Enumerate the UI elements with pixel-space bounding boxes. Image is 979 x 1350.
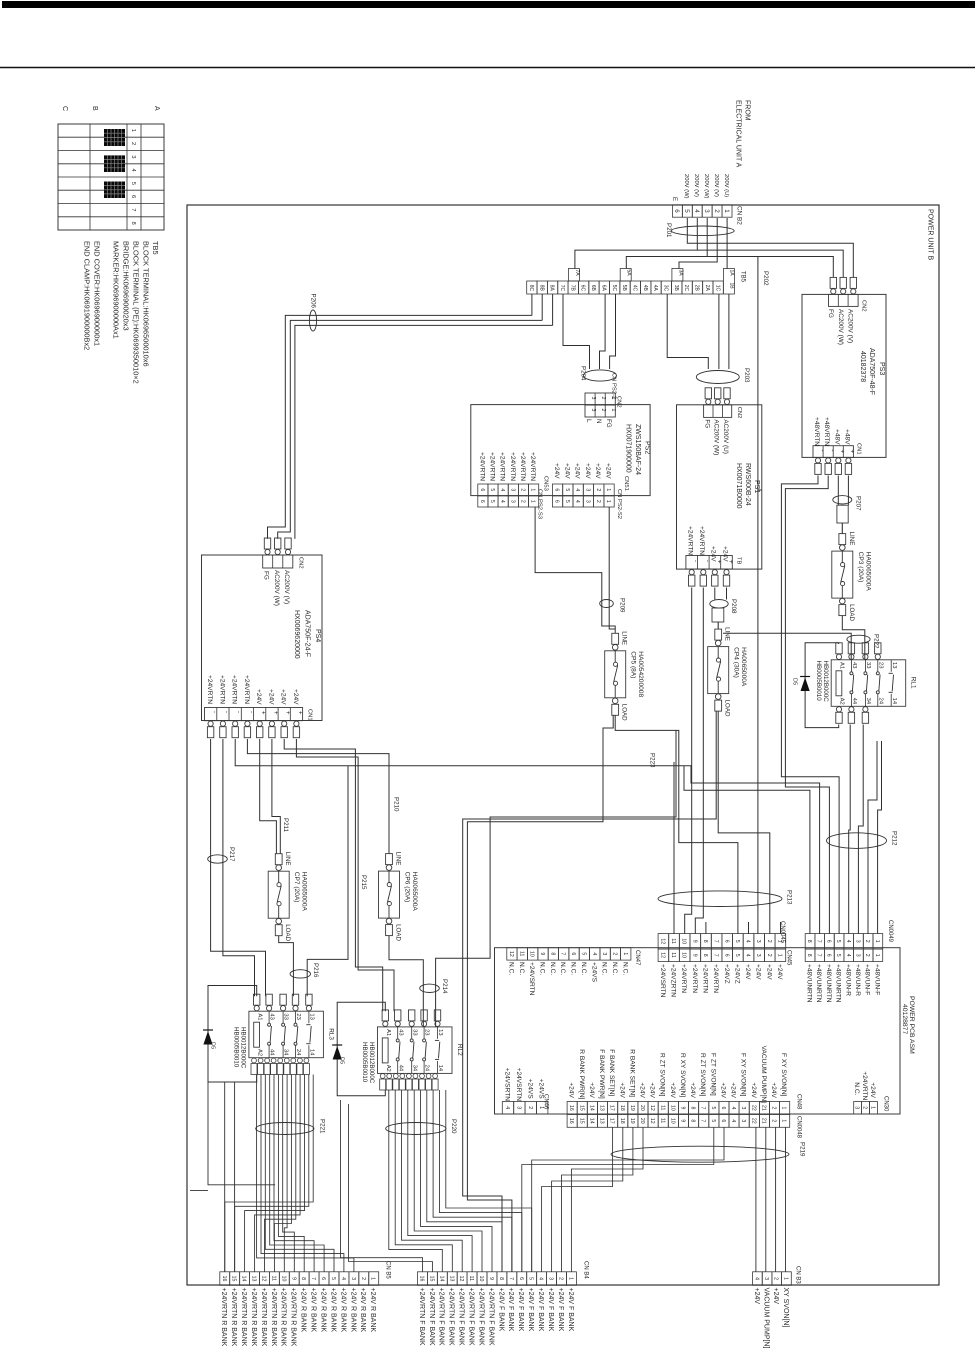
TB5 strip cell 1A 1B	[723, 269, 734, 295]
svg-text:P222: P222	[873, 634, 880, 649]
svg-text:CN0048: CN0048	[796, 1116, 802, 1139]
svg-text:16: 16	[568, 1105, 574, 1111]
cable marker P221	[256, 1123, 314, 1135]
svg-text:6: 6	[825, 940, 831, 943]
svg-text:POWER UNIT B: POWER UNIT B	[927, 209, 934, 261]
relay RL1 contacts	[850, 672, 853, 675]
svg-text:1: 1	[370, 1277, 376, 1280]
svg-text:6A: 6A	[600, 285, 606, 292]
svg-text:14: 14	[309, 1049, 315, 1056]
svg-text:+48VUNRTN: +48VUNRTN	[835, 964, 842, 1003]
svg-text:4B: 4B	[642, 285, 648, 292]
relay RL3 contacts	[268, 1023, 271, 1026]
svg-text:LINE: LINE	[621, 631, 628, 645]
wire 6A to PS2 N	[600, 294, 606, 369]
svg-text:P201: P201	[665, 223, 672, 238]
svg-text:3: 3	[548, 1277, 554, 1280]
svg-text:+24VRTN: +24VRTN	[702, 964, 709, 993]
svg-text:15: 15	[578, 1118, 584, 1124]
svg-text:7: 7	[700, 1107, 706, 1110]
PS1 connector CN2	[704, 405, 732, 418]
svg-text:+24V: +24V	[584, 463, 591, 479]
svg-text:+24VRTN: +24VRTN	[680, 964, 687, 993]
diode D5 (RL2)	[333, 1046, 342, 1060]
svg-text:CN1: CN1	[856, 443, 862, 455]
svg-text:P211: P211	[282, 818, 289, 833]
svg-text:HA0065000A: HA0065000A	[411, 872, 418, 912]
svg-text:200V (V): 200V (V)	[713, 174, 719, 197]
svg-text:CN48: CN48	[796, 1094, 802, 1110]
svg-text:19: 19	[629, 1118, 635, 1124]
svg-text:5A: 5A	[626, 270, 632, 277]
svg-text:23: 23	[295, 1013, 301, 1019]
svg-text:CP5 (8A): CP5 (8A)	[630, 651, 637, 678]
svg-text:RL1: RL1	[910, 677, 917, 689]
svg-text:+: +	[849, 450, 855, 454]
svg-text:-: -	[692, 560, 698, 562]
svg-text:3: 3	[509, 488, 515, 491]
svg-text:+24VRTN R BANK: +24VRTN R BANK	[280, 1288, 287, 1347]
svg-text:24: 24	[877, 698, 883, 705]
svg-text:33: 33	[865, 662, 871, 668]
svg-text:L: L	[585, 419, 592, 423]
svg-text:+24V: +24V	[574, 463, 581, 479]
svg-text:6: 6	[723, 940, 729, 943]
svg-text:CN45: CN45	[786, 950, 792, 966]
svg-text:+24V R BANK: +24V R BANK	[310, 1288, 317, 1333]
svg-text:LINE: LINE	[848, 532, 855, 546]
svg-text:+24VRTN: +24VRTN	[206, 675, 213, 704]
svg-text:5: 5	[130, 182, 136, 185]
svg-text:12: 12	[649, 1118, 655, 1124]
svg-text:4: 4	[538, 1277, 544, 1280]
page header black bar	[2, 1, 975, 8]
svg-text:4: 4	[591, 952, 597, 955]
svg-text:3C: 3C	[663, 285, 669, 292]
circuit protector CP4 LOAD terminal	[715, 694, 721, 700]
svg-text:P213: P213	[786, 890, 793, 905]
wire to CN0049-2	[868, 741, 877, 934]
PS1 CN2 terminals	[705, 388, 711, 399]
power supply PS2 body	[471, 405, 650, 496]
svg-text:BRIDGE:HK0696900020x3: BRIDGE:HK0696900020x3	[122, 241, 131, 331]
svg-text:+24V R BANK: +24V R BANK	[369, 1288, 376, 1333]
wire 1B to PS1	[728, 294, 730, 369]
svg-text:+48VUN-R: +48VUN-R	[854, 964, 861, 996]
svg-text:+24V: +24V	[588, 1082, 595, 1098]
svg-text:+24V: +24V	[553, 463, 560, 479]
svg-text:TB: TB	[736, 557, 742, 565]
svg-text:16: 16	[568, 1118, 574, 1124]
svg-text:LOAD: LOAD	[621, 704, 628, 721]
svg-text:R ZT SVON[N]: R ZT SVON[N]	[699, 1053, 706, 1097]
RL1 coil loop with diode D5	[805, 643, 839, 728]
svg-text:FG: FG	[605, 419, 612, 428]
wire PS3 -48VRTN to CN0049-5	[781, 476, 839, 934]
svg-text:40182378: 40182378	[859, 351, 866, 382]
wire CP5 LOAD left branch down to CN B4	[467, 715, 613, 1272]
svg-text:POWER PCB ASM: POWER PCB ASM	[908, 996, 915, 1054]
connector CN B4	[418, 1272, 428, 1286]
svg-text:1: 1	[530, 488, 536, 491]
svg-text:2C: 2C	[683, 285, 689, 292]
connector CN45 with mating CN0045	[658, 934, 669, 949]
svg-text:+24V: +24V	[721, 546, 728, 562]
svg-text:PS1: PS1	[753, 480, 760, 493]
svg-text:ADA750F-48-F: ADA750F-48-F	[868, 348, 875, 395]
svg-text:3: 3	[755, 954, 761, 957]
svg-text:AC200V (W): AC200V (W)	[837, 309, 844, 345]
svg-text:6: 6	[554, 488, 560, 491]
svg-text:F BANK PWR[N]: F BANK PWR[N]	[598, 1049, 605, 1099]
svg-text:+24VRTN: +24VRTN	[489, 452, 496, 481]
circuit protector CP5 LOAD terminal	[612, 698, 618, 704]
svg-text:3: 3	[130, 155, 136, 158]
wire RL3 loop to CN B5 cell 16	[224, 1082, 226, 1272]
svg-text:3: 3	[585, 500, 591, 503]
svg-text:17: 17	[609, 1105, 615, 1111]
svg-text:+48VUN-R: +48VUN-R	[844, 964, 851, 996]
cable marker P217	[208, 855, 228, 863]
wire CP7 LOAD to RL3-23 via P216	[279, 936, 294, 997]
svg-text:2B: 2B	[694, 285, 700, 292]
PS3 CN2 terminals	[830, 277, 836, 288]
svg-text:22: 22	[750, 1118, 756, 1124]
svg-text:1: 1	[782, 1277, 788, 1280]
svg-text:7: 7	[310, 1277, 316, 1280]
svg-text:14: 14	[241, 1276, 247, 1282]
svg-text:5: 5	[489, 488, 495, 491]
svg-text:+24V R BANK: +24V R BANK	[349, 1288, 356, 1333]
svg-text:10: 10	[280, 1276, 286, 1282]
svg-text:13: 13	[251, 1276, 257, 1282]
svg-text:LINE: LINE	[395, 852, 402, 866]
svg-text:11: 11	[659, 1105, 665, 1110]
wire PS4-4 to CP6 via P210	[247, 739, 389, 854]
svg-text:+48VUN-F: +48VUN-F	[873, 964, 880, 995]
svg-text:6C: 6C	[580, 285, 586, 292]
svg-text:3: 3	[855, 954, 861, 957]
wire RL3 loop to CN B5 cell 15	[234, 1082, 236, 1272]
svg-text:6: 6	[673, 209, 680, 213]
svg-text:23: 23	[877, 662, 883, 668]
svg-text:+24VRTN: +24VRTN	[231, 675, 238, 704]
svg-text:3: 3	[601, 952, 607, 955]
svg-text:4: 4	[499, 500, 505, 503]
svg-text:-: -	[247, 711, 253, 713]
svg-text:44: 44	[269, 1049, 275, 1056]
cable marker P216	[290, 970, 310, 978]
svg-text:P216: P216	[312, 963, 319, 978]
svg-text:5: 5	[835, 940, 841, 943]
svg-text:+24VRTN R BANK: +24VRTN R BANK	[230, 1288, 237, 1347]
svg-text:1: 1	[777, 954, 783, 957]
svg-text:6: 6	[518, 1277, 524, 1280]
svg-text:+24VS: +24VS	[538, 1079, 545, 1100]
svg-text:+48VUNRTN: +48VUNRTN	[825, 964, 832, 1003]
wire 8A to P206 bus	[552, 294, 554, 325]
RL2 top terminals	[382, 1010, 388, 1021]
svg-text:2: 2	[520, 488, 526, 491]
page header rule	[0, 67, 975, 69]
svg-text:2: 2	[600, 397, 606, 400]
svg-text:3B: 3B	[673, 285, 679, 292]
svg-text:AC200V (U): AC200V (U)	[722, 419, 729, 453]
wire stub CN0049-1	[878, 741, 882, 934]
svg-text:3: 3	[854, 1106, 860, 1109]
svg-text:BLOCK TERMINAL (PE):HK06993500: BLOCK TERMINAL (PE):HK0699350010×2	[132, 241, 141, 384]
svg-text:5: 5	[683, 209, 690, 213]
svg-text:4C: 4C	[632, 285, 638, 292]
svg-text:7: 7	[816, 940, 822, 943]
svg-text:MARKER:HK0696900000Ax1: MARKER:HK0696900000Ax1	[112, 241, 121, 339]
svg-text:+48VUNRTN: +48VUNRTN	[815, 964, 822, 1003]
svg-text:P206: P206	[310, 294, 317, 309]
svg-text:+24V R BANK: +24V R BANK	[300, 1288, 307, 1333]
svg-text:+24V: +24V	[869, 1082, 876, 1098]
svg-text:+24VRTN R BANK: +24VRTN R BANK	[250, 1288, 257, 1347]
svg-text:1: 1	[605, 488, 611, 491]
svg-text:+24V R BANK: +24V R BANK	[320, 1288, 327, 1333]
svg-text:21: 21	[761, 1105, 767, 1111]
svg-text:+24VRTN F BANK: +24VRTN F BANK	[428, 1288, 435, 1346]
cable marker P204	[584, 370, 617, 381]
wire PS4-1 to RL3-43 via P217	[211, 739, 266, 996]
svg-text:8: 8	[549, 952, 555, 955]
svg-text:-: -	[235, 711, 241, 713]
circuit protector CP6 body	[379, 871, 400, 918]
svg-text:14: 14	[438, 1276, 444, 1282]
wire RL1-34 to CN0049-3	[858, 725, 863, 934]
svg-text:6: 6	[554, 500, 560, 503]
svg-text:5: 5	[564, 488, 570, 491]
TB5 terminal block table	[58, 124, 164, 230]
wire CN B2-2 to TB5 3A	[679, 218, 717, 269]
svg-text:6: 6	[720, 1107, 726, 1110]
svg-text:+24VRTN: +24VRTN	[218, 675, 225, 704]
wire branch to CN0049-8	[684, 766, 810, 934]
RL2 output bundle fan to CN B4	[446, 1090, 532, 1272]
svg-text:D5: D5	[210, 1042, 216, 1049]
connector CN B3	[753, 1272, 763, 1286]
svg-text:2: 2	[595, 488, 601, 491]
PS2 output connector CN53	[478, 484, 488, 496]
svg-text:7A: 7A	[574, 270, 580, 277]
svg-text:3: 3	[755, 940, 761, 943]
svg-text:+24VSRTN: +24VSRTN	[515, 1068, 522, 1102]
svg-text:10: 10	[529, 951, 535, 957]
svg-text:8: 8	[702, 954, 708, 957]
svg-text:END COVER:HK0696900000x1: END COVER:HK0696900000x1	[93, 241, 102, 346]
svg-text:5: 5	[564, 500, 570, 503]
wire CN B2-1 to TB5 1A	[726, 218, 728, 269]
svg-text:+24VRTN: +24VRTN	[478, 452, 485, 481]
svg-text:40128877: 40128877	[901, 1004, 908, 1034]
svg-text:2: 2	[130, 142, 136, 145]
svg-text:LOAD: LOAD	[395, 924, 402, 941]
svg-text:A1: A1	[839, 662, 845, 669]
svg-text:1: 1	[622, 952, 628, 955]
svg-text:7: 7	[816, 954, 822, 957]
svg-text:+48V: +48V	[844, 429, 851, 445]
wire 1C to PS1	[718, 294, 720, 369]
svg-text:+24VRTN F BANK: +24VRTN F BANK	[458, 1288, 465, 1346]
svg-text:-: -	[223, 711, 229, 713]
TB5 strip top cells 7A 5A 3A	[568, 269, 579, 282]
POWER PCB ASM body	[495, 948, 901, 1114]
svg-text:9: 9	[539, 952, 545, 955]
svg-text:8: 8	[690, 1107, 696, 1110]
svg-text:3: 3	[515, 1106, 521, 1109]
svg-text:14: 14	[891, 698, 897, 705]
circuit protector CP4 body	[708, 647, 729, 694]
wire CN51 pin1 down to P209	[609, 507, 615, 629]
svg-text:43: 43	[397, 1029, 403, 1035]
svg-text:D5: D5	[792, 678, 798, 685]
power supply PS1 body	[677, 405, 762, 569]
svg-text:43: 43	[851, 662, 857, 668]
svg-text:200V (V): 200V (V)	[693, 174, 699, 197]
svg-text:5: 5	[528, 1277, 534, 1280]
svg-text:+24V: +24V	[755, 964, 762, 980]
svg-text:TB5: TB5	[740, 271, 746, 283]
svg-text:LOAD: LOAD	[284, 924, 291, 941]
svg-text:HA0065000A: HA0065000A	[864, 552, 871, 592]
svg-text:A: A	[153, 106, 160, 111]
svg-text:P207: P207	[855, 496, 862, 511]
svg-text:15: 15	[578, 1105, 584, 1111]
svg-text:AC200V (V): AC200V (V)	[283, 570, 290, 604]
svg-text:8: 8	[806, 940, 812, 943]
svg-text:P202: P202	[762, 271, 769, 286]
svg-text:7B: 7B	[569, 285, 575, 292]
svg-text:A2: A2	[256, 1049, 262, 1056]
svg-text:+48VUN-F: +48VUN-F	[864, 964, 871, 995]
wire PS3 +48V pair to P207	[837, 476, 839, 506]
svg-text:1: 1	[130, 129, 136, 132]
svg-text:5: 5	[734, 940, 740, 943]
wire 200V bus to 5A and PS3 FG	[626, 257, 833, 278]
svg-text:3: 3	[509, 500, 515, 503]
wire 8B to P206 bus	[541, 294, 543, 320]
cable marker P222	[847, 635, 870, 643]
svg-text:14: 14	[437, 1065, 443, 1072]
svg-text:+24VRTN: +24VRTN	[529, 452, 536, 481]
svg-text:4: 4	[753, 1277, 759, 1280]
svg-text:+24V R BANK: +24V R BANK	[339, 1288, 346, 1333]
svg-text:RL2: RL2	[456, 1044, 463, 1056]
svg-text:6: 6	[479, 500, 485, 503]
power supply PS3 body	[802, 294, 886, 457]
circuit protector CP7 LOAD terminal	[276, 918, 282, 924]
PS2 output connector CN51	[552, 484, 562, 496]
svg-text:9: 9	[290, 1277, 296, 1280]
svg-text:7: 7	[560, 952, 566, 955]
svg-text:+24V: +24V	[710, 546, 717, 562]
svg-text:44: 44	[397, 1065, 403, 1072]
svg-text:9: 9	[680, 1119, 686, 1122]
svg-text:5: 5	[489, 500, 495, 503]
circuit protector CP4 LINE terminal	[715, 629, 722, 640]
svg-text:5: 5	[734, 954, 740, 957]
svg-text:3: 3	[590, 409, 596, 412]
svg-text:4: 4	[499, 488, 505, 491]
svg-text:1: 1	[723, 209, 730, 213]
svg-text:2: 2	[713, 209, 720, 213]
svg-text:FG: FG	[827, 309, 834, 318]
svg-text:LOAD: LOAD	[848, 604, 855, 621]
wire PS4-3 +24V distribution branch	[235, 739, 819, 934]
svg-text:17: 17	[609, 1118, 615, 1124]
svg-text:+24V F BANK: +24V F BANK	[497, 1288, 504, 1332]
PS1 TB terminals	[689, 570, 694, 575]
svg-text:XY SVON[N]: XY SVON[N]	[782, 1288, 789, 1328]
svg-text:+24VSRTN: +24VSRTN	[528, 962, 535, 996]
svg-text:CN2: CN2	[298, 557, 304, 569]
svg-text:F ZT SVON[N]: F ZT SVON[N]	[709, 1053, 716, 1096]
wires CN0048 22 21 2 1 to CN B3	[755, 1127, 757, 1272]
power supply PS4 body	[202, 555, 323, 721]
svg-text:+24VSRTN: +24VSRTN	[659, 964, 666, 998]
svg-text:F XY SVON[N]: F XY SVON[N]	[780, 1053, 787, 1097]
svg-text:12: 12	[659, 938, 665, 944]
circuit protector CP3 LINE terminal	[839, 534, 846, 545]
svg-text:3: 3	[590, 397, 596, 400]
svg-text:+24V R BANK: +24V R BANK	[329, 1288, 336, 1333]
svg-text:33: 33	[411, 1029, 417, 1035]
svg-text:10: 10	[669, 1118, 675, 1124]
svg-text:16: 16	[419, 1276, 425, 1282]
svg-text:N.C.: N.C.	[518, 962, 525, 975]
svg-text:CP4 (30A): CP4 (30A)	[733, 647, 740, 678]
svg-text:P220: P220	[450, 1119, 457, 1134]
svg-text:2: 2	[527, 1106, 533, 1109]
svg-text:HX0071900000: HX0071900000	[625, 424, 632, 473]
svg-text:CN30: CN30	[883, 1096, 889, 1112]
svg-text:N.C.: N.C.	[601, 962, 608, 975]
svg-text:14: 14	[588, 1105, 594, 1111]
svg-text:+: +	[839, 450, 845, 454]
svg-text:13: 13	[309, 1013, 315, 1019]
relay RL1 coil	[836, 671, 842, 696]
main enclosure border POWER UNIT B	[187, 205, 939, 1285]
svg-text:-: -	[211, 711, 217, 713]
wire RL1-44 to CN0049-4	[849, 725, 851, 934]
PS2 connector CN2	[585, 393, 615, 405]
svg-text:7: 7	[508, 1277, 514, 1280]
svg-text:+: +	[284, 711, 290, 715]
cable marker P207	[833, 496, 852, 504]
svg-text:+24VRTN F BANK: +24VRTN F BANK	[448, 1288, 455, 1346]
circuit protector CP5 LINE terminal	[612, 633, 619, 644]
relay RL3 coil	[254, 1022, 260, 1047]
wire PS1 -24VRTN to CN45-9	[695, 588, 703, 934]
svg-text:N.C.: N.C.	[621, 962, 628, 975]
wire CN B2-4 junction	[696, 218, 698, 250]
svg-text:1: 1	[781, 1107, 787, 1110]
svg-text:PS2: PS2	[644, 441, 651, 454]
wire 7C to PS2 L	[563, 294, 590, 369]
svg-text:1: 1	[874, 954, 880, 957]
svg-text:6: 6	[570, 952, 576, 955]
svg-text:N.C.: N.C.	[508, 962, 515, 975]
wire P223 branch to RL2-13 chain	[436, 730, 676, 1027]
svg-text:8B: 8B	[538, 285, 544, 292]
relay RL2 contacts	[396, 1039, 399, 1042]
svg-text:8A: 8A	[549, 285, 555, 292]
svg-text:CN51: CN51	[623, 476, 629, 491]
svg-text:A2: A2	[385, 1065, 391, 1072]
